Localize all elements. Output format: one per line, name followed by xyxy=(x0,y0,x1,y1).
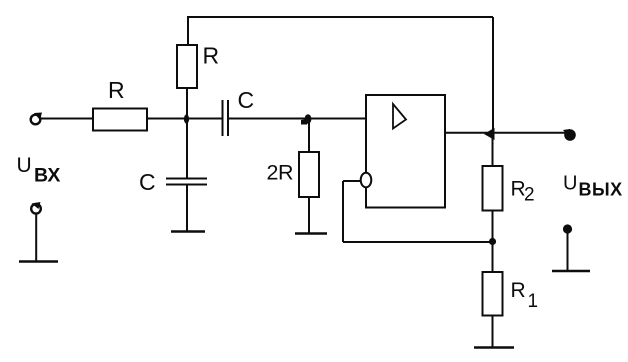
resistor R (top vertical) xyxy=(177,45,197,88)
capacitor C (series) left plate xyxy=(222,100,224,136)
wire capacitor C to node B to op-amp input xyxy=(229,118,366,120)
svg-text:C: C xyxy=(238,87,255,113)
node B junction tail xyxy=(301,119,308,125)
op-amp U1 body xyxy=(366,95,445,208)
wire node B down to resistor 2R xyxy=(308,119,310,153)
wire top feedback down to node C xyxy=(492,17,494,133)
resistor R (left horizontal) xyxy=(93,109,147,131)
capacitor C (shunt) bottom plate xyxy=(166,184,207,186)
ground (under R1) xyxy=(474,346,514,349)
ground (under shunt C) xyxy=(171,230,205,233)
node C junction (arrow) xyxy=(484,128,495,140)
wire resistor R right to node A to capacitor C xyxy=(147,118,222,120)
output ground terminal dot xyxy=(563,224,572,233)
input terminal arrow xyxy=(34,113,42,121)
output terminal arrow xyxy=(563,129,570,137)
wire feedback horizontal to node D xyxy=(343,241,493,243)
wire top feedback horizontal xyxy=(188,16,493,18)
svg-text:2R: 2R xyxy=(267,161,293,185)
svg-text:ВХ: ВХ xyxy=(34,165,60,187)
wire node A down to capacitor C (shunt) xyxy=(186,119,188,179)
wire from top feedback down to resistor R (top vertical) xyxy=(187,16,189,45)
wire node C down to resistor R2 xyxy=(492,133,494,166)
input ground terminal arrow xyxy=(32,202,41,209)
svg-text:R: R xyxy=(108,77,125,103)
svg-text:R: R xyxy=(203,43,220,69)
svg-text:2: 2 xyxy=(524,185,535,206)
resistor R2 xyxy=(483,166,503,211)
svg-text:1: 1 xyxy=(528,291,539,312)
ground (output reference) xyxy=(552,270,590,273)
input terminal circle xyxy=(31,115,41,125)
ground (input reference) xyxy=(19,260,58,263)
wire feedback vertical (left of op-amp) xyxy=(342,181,344,242)
node A junction xyxy=(184,114,189,123)
wire input terminal to resistor R (left) xyxy=(39,118,93,120)
input ground terminal circle xyxy=(31,204,41,214)
wire resistor 2R to ground xyxy=(308,197,310,233)
capacitor C (shunt) top plate xyxy=(166,178,207,180)
output terminal dot xyxy=(564,129,576,141)
svg-text:U: U xyxy=(17,154,32,177)
svg-text:R: R xyxy=(511,279,526,302)
wire resistor R1 to ground xyxy=(492,316,494,348)
wire resistor R2 to node D xyxy=(492,211,494,273)
svg-text:C: C xyxy=(139,169,156,195)
resistor R1 xyxy=(483,272,503,316)
wire capacitor C (shunt) to ground xyxy=(186,185,188,231)
capacitor C (series) right plate xyxy=(227,100,229,136)
node D junction dot xyxy=(489,238,496,245)
resistor 2R xyxy=(299,152,319,197)
svg-text:U: U xyxy=(563,173,577,195)
node B junction xyxy=(305,114,312,124)
wire inverting input to feedback (left) xyxy=(343,180,361,182)
svg-text:ВЫХ: ВЫХ xyxy=(579,180,623,200)
wire input ground terminal down xyxy=(35,214,37,262)
ground (under 2R) xyxy=(295,232,327,235)
wire op-amp output to output terminal xyxy=(445,132,566,134)
op-amp U1 triangle symbol xyxy=(393,104,406,129)
wire output ground terminal down xyxy=(567,233,569,271)
wire resistor R bottom to node A xyxy=(186,88,188,119)
op-amp U1 inverting input circle xyxy=(361,173,372,188)
